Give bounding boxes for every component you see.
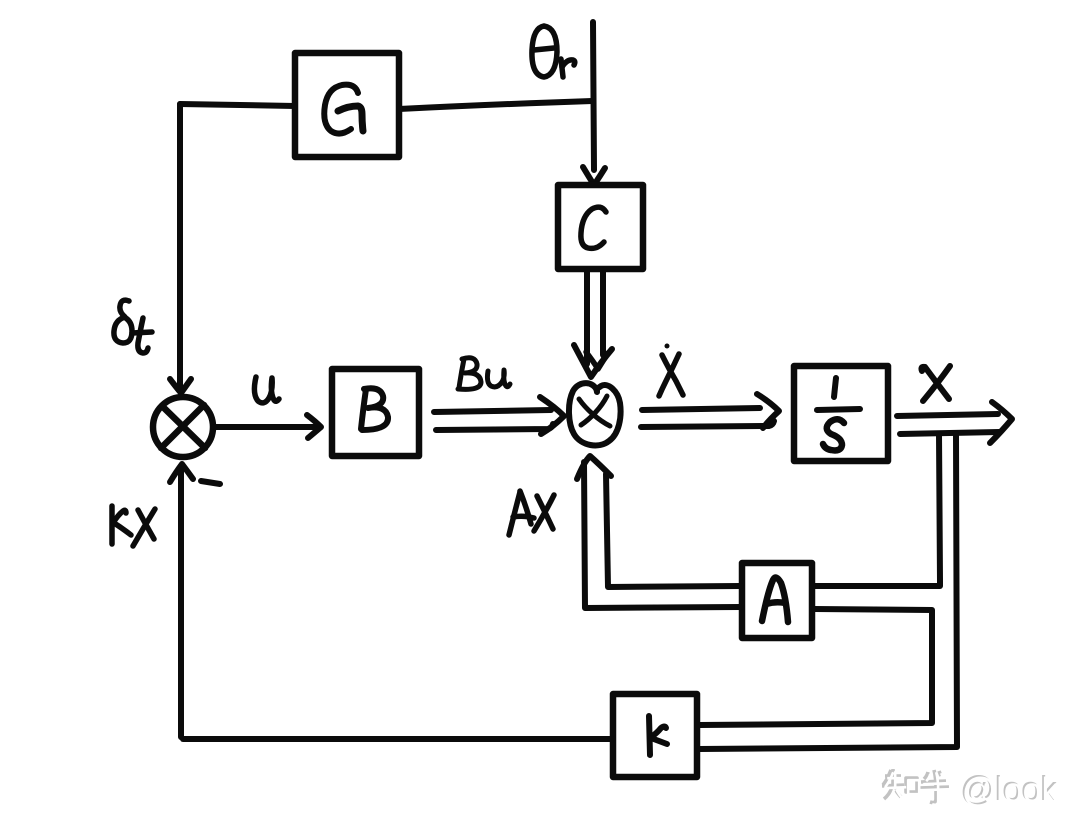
arrowhead into C [583,167,605,185]
watermark zhihu @look [882,769,949,803]
wire: Bu double arrow upper [434,410,551,412]
arrowhead into B [307,415,321,438]
arrowhead KX up into summing junction [170,464,193,482]
block G [295,53,399,157]
wire: A output lower horizontal to AX vertical [584,462,741,608]
wire: A lower input from tee via down-left path to K upper input [699,609,932,725]
label u [254,377,279,403]
wire: left feedback vertical up to summing junction [178,468,184,737]
arrowhead into summing junction top [170,379,191,393]
wire: theta_r input vertical [593,22,594,170]
wire: u line from junction to B [214,424,318,430]
block K [613,694,697,777]
label X output [921,366,950,401]
wire: X output double arrow upper [897,414,998,416]
arrowhead X output [990,402,1012,443]
label Bu [458,358,510,390]
label KX [112,506,155,546]
wire: X output double arrow lower [900,432,999,434]
wire: A output upper horizontal to AX vertical [606,474,741,587]
wire: K output to bottom left [183,736,613,742]
minus sign [201,481,220,484]
wire: Bu double arrow lower [436,424,553,430]
label delta_f [114,300,152,353]
summing junction circle with X [153,397,213,457]
label AX [509,491,554,535]
wire: top horizontal from left vertical to G [180,104,295,106]
svg-text:@look: @look [962,772,1060,810]
multiplier junction blob [569,383,621,445]
block 1/s [794,366,888,461]
wire: delta_f vertical down to summing junction [177,104,183,388]
wire: X-dot double arrow upper [642,408,760,410]
wire: X-dot double arrow lower [641,421,774,427]
wire: tee down right vertical to K lower input [699,434,957,749]
wire: tee down left vertical into A upper input [814,434,940,586]
wire: C to junction double line right [600,270,606,355]
arrowhead X-dot [757,394,779,428]
wire: C to junction double line left [584,270,590,364]
label theta_r [532,26,575,77]
arrowhead Bu [540,397,564,434]
arrowhead AX up into junction [577,456,611,479]
block B [332,369,419,456]
block A [742,563,812,638]
wire: top horizontal from G to theta_r line [399,101,592,109]
label X-dot [659,344,683,397]
block C [558,185,643,269]
double arrowhead down into junction [574,345,612,377]
